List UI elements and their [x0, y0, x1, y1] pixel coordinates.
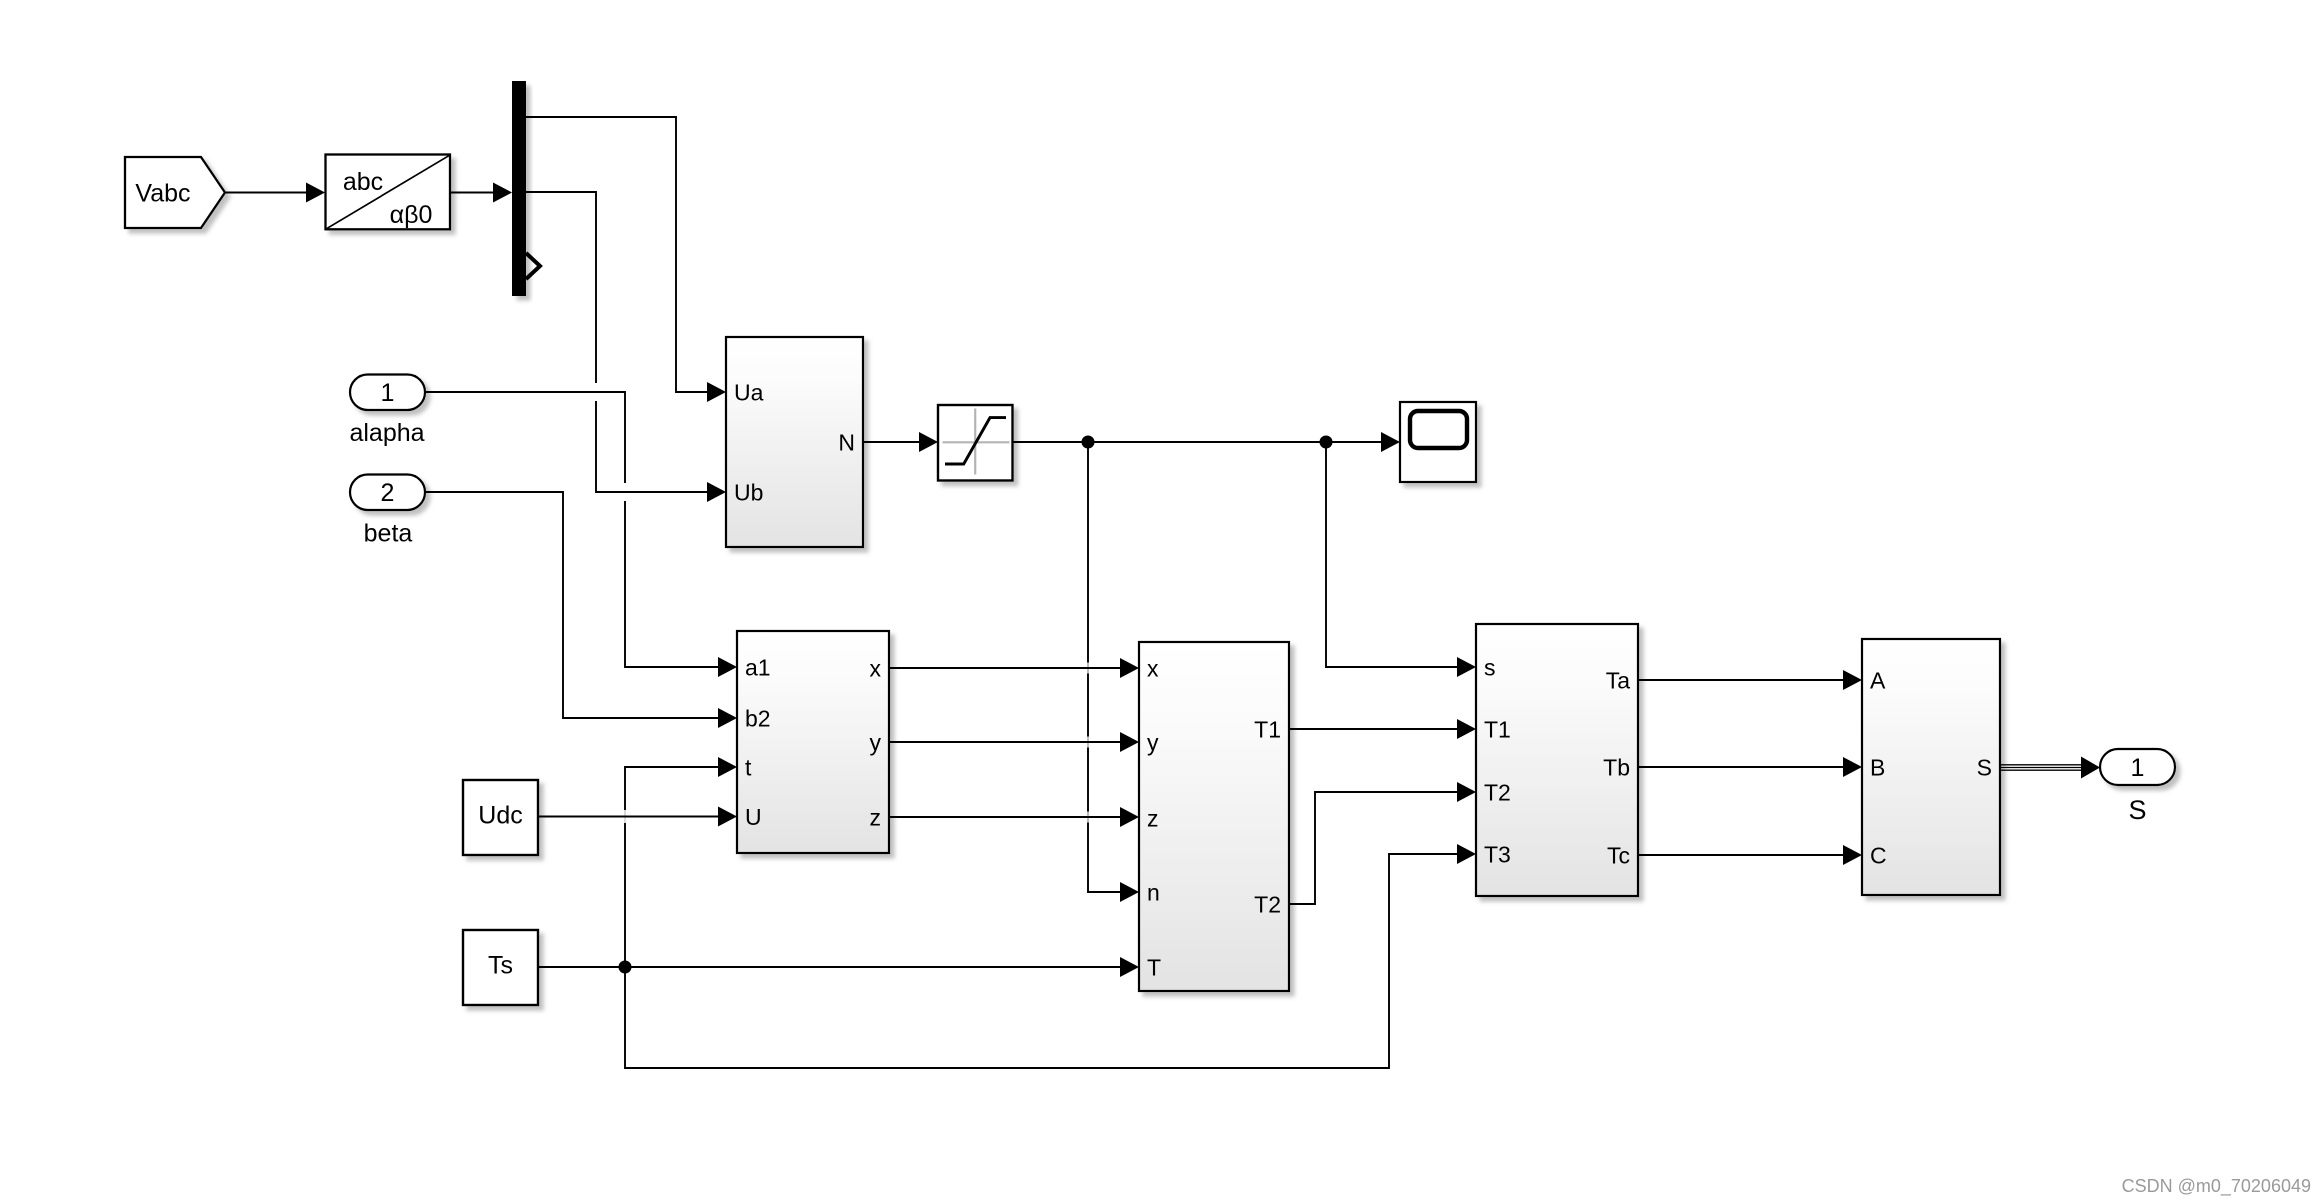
- svg-text:Tc: Tc: [1607, 842, 1630, 868]
- svg-text:abc: abc: [343, 168, 383, 196]
- wire Ta to A: [1638, 670, 1862, 690]
- svg-text:T3: T3: [1484, 841, 1511, 867]
- svg-text:U: U: [745, 804, 762, 830]
- crossing gap at 1088,742: [1085, 737, 1092, 748]
- wire Udc to U: [538, 807, 737, 827]
- svg-text:Udc: Udc: [478, 802, 522, 830]
- svg-text:Vabc: Vabc: [135, 180, 190, 208]
- wire Vabc to abc: [225, 183, 325, 203]
- svg-text:T: T: [1147, 954, 1161, 980]
- svg-text:1: 1: [381, 379, 395, 407]
- svg-text:A: A: [1870, 667, 1886, 693]
- svg-text:x: x: [870, 655, 882, 681]
- scope: [1400, 402, 1476, 482]
- svg-text:a1: a1: [745, 654, 771, 680]
- inport 2: [350, 475, 425, 511]
- svg-text:Ts: Ts: [488, 952, 513, 980]
- subsystem U4 (s,T1,T2,T3 -> Ta,Tb,Tc): [1476, 624, 1638, 896]
- wire Tb to B: [1638, 757, 1862, 777]
- svg-text:n: n: [1147, 879, 1160, 905]
- svg-text:Tb: Tb: [1603, 754, 1630, 780]
- outport 1: [2100, 749, 2175, 785]
- svg-text:T2: T2: [1254, 891, 1281, 917]
- wire beta to b2: [425, 492, 737, 728]
- inport Vabc: [125, 157, 225, 228]
- subsystem U3 (x,y,z,n,T -> T1,T2): [1139, 642, 1289, 991]
- demux: [512, 81, 540, 296]
- wire Ts to T: [538, 957, 1139, 977]
- crossing gap at 1088,817: [1085, 812, 1092, 823]
- svg-text:2: 2: [381, 479, 395, 507]
- svg-text:t: t: [745, 754, 752, 780]
- wire demux out1 to Ua: [526, 117, 726, 402]
- svg-text:B: B: [1870, 754, 1885, 780]
- svg-text:z: z: [870, 804, 882, 830]
- crossing gap at 625,492: [622, 483, 629, 501]
- svg-text:x: x: [1147, 655, 1159, 681]
- svg-text:T1: T1: [1484, 716, 1511, 742]
- svg-text:CSDN @m0_70206049: CSDN @m0_70206049: [2122, 1176, 2311, 1197]
- crossing gap at 625,816: [622, 810, 629, 823]
- crossing gap at 1088,668: [1085, 663, 1092, 674]
- svg-text:s: s: [1484, 654, 1496, 680]
- subsystem U1 (Ua,Ub -> N): [726, 337, 863, 547]
- wire junction A to n: [1088, 442, 1139, 902]
- wire alapha to a1: [425, 392, 737, 677]
- svg-text:C: C: [1870, 842, 1887, 868]
- svg-text:T1: T1: [1254, 716, 1281, 742]
- constant Udc: [463, 780, 538, 855]
- svg-text:Ta: Ta: [1606, 667, 1631, 693]
- svg-text:y: y: [870, 729, 882, 755]
- junction dot B: [1320, 436, 1333, 449]
- svg-text:1: 1: [2131, 754, 2145, 782]
- svg-text:N: N: [838, 429, 855, 455]
- wire junction C to t: [625, 757, 737, 967]
- wire y to y: [889, 732, 1139, 752]
- crossing gap at 596,392: [593, 383, 600, 401]
- wire x to x: [889, 658, 1139, 678]
- svg-text:αβ0: αβ0: [390, 201, 433, 229]
- wire T2 to T2: [1289, 782, 1476, 904]
- svg-text:Ub: Ub: [734, 479, 763, 505]
- wire N to saturation: [863, 432, 938, 452]
- inport 1: [350, 375, 425, 411]
- subsystem U2 (a1,b2,t,U -> x,y,z): [737, 631, 889, 853]
- junction dot A: [1082, 436, 1095, 449]
- svg-text:S: S: [1977, 754, 1992, 780]
- constant Ts: [463, 930, 538, 1005]
- wire saturation to scope: [1013, 432, 1400, 452]
- svg-text:z: z: [1147, 805, 1159, 831]
- wire Tc to C: [1638, 845, 1862, 865]
- wire junction B to s: [1326, 442, 1476, 677]
- wire demux out2 to Ub: [526, 192, 726, 502]
- wire abc to demux: [450, 183, 512, 203]
- svg-text:S: S: [2128, 795, 2146, 825]
- junction dot C: [619, 961, 632, 974]
- svg-text:T2: T2: [1484, 779, 1511, 805]
- subsystem U5 (A,B,C -> S): [1862, 639, 2000, 895]
- svg-text:beta: beta: [364, 520, 413, 548]
- wire junction C to T3: [625, 844, 1476, 1068]
- wire S to outport (wide bus): [2000, 757, 2100, 779]
- svg-text:b2: b2: [745, 705, 771, 731]
- svg-text:alapha: alapha: [349, 419, 424, 447]
- svg-text:y: y: [1147, 729, 1159, 755]
- wire T1 to T1: [1289, 719, 1476, 739]
- svg-text:Ua: Ua: [734, 379, 764, 405]
- transform block abc/ab0: [326, 155, 451, 230]
- saturation block: [938, 405, 1013, 481]
- wire z to z: [889, 807, 1139, 827]
